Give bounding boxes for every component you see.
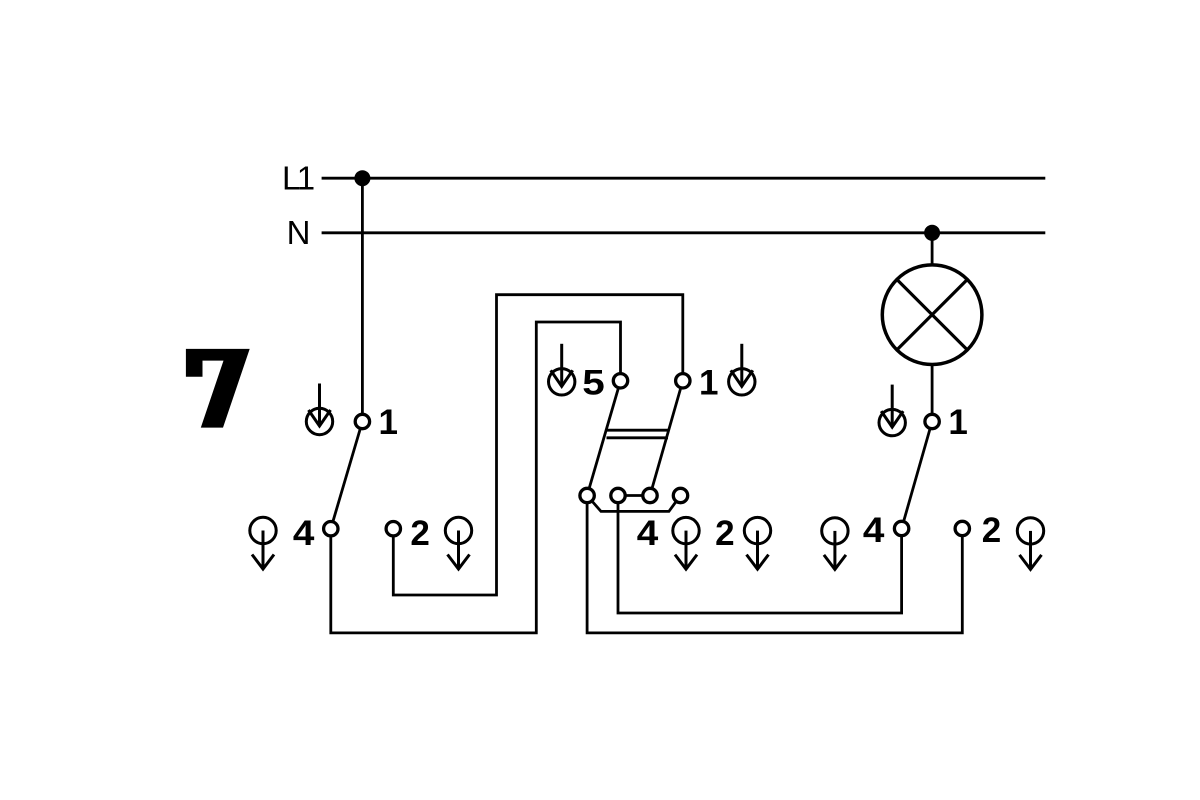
arrow-out symbol S1 left <box>250 517 276 569</box>
terminal X1 bottom c <box>643 488 657 502</box>
junction dot L1 <box>354 170 370 186</box>
arrow-in symbol S2 feed <box>879 385 905 436</box>
arrow-in symbol X1 left <box>549 344 575 395</box>
svg-text:2: 2 <box>715 514 734 553</box>
arrow-in symbol X1 right <box>729 344 755 395</box>
junction dot N <box>924 225 940 241</box>
terminal X1 bottom d <box>673 488 687 502</box>
terminal X1-5 <box>613 374 627 388</box>
terminal X1 bottom a <box>580 488 594 502</box>
svg-text:5: 5 <box>582 364 605 403</box>
step number 7 <box>186 349 250 428</box>
wire L1 bus <box>322 177 1046 180</box>
switch S1 blade <box>331 422 363 529</box>
terminal X1-1 <box>676 374 690 388</box>
intermediate switch blade right <box>650 381 683 496</box>
arrow-out symbol S2 right <box>1017 518 1043 570</box>
terminal S2-2 <box>955 521 969 535</box>
terminal S2-1 <box>925 414 939 428</box>
terminal S1-2 <box>386 522 400 536</box>
switch S2 blade <box>902 422 933 529</box>
wire S1 terminal 2 to intermediate terminal 1 (outer loop) <box>393 295 683 595</box>
wire intermediate bottom terminal to S2 terminal 4 (upper bus) <box>618 496 902 614</box>
wire L1 feed down to switch S1 terminal 1 <box>361 178 364 421</box>
wire N bus <box>322 231 1046 234</box>
wire S1 terminal 4 to intermediate terminal 5 (inner loop) <box>331 322 621 633</box>
intermediate switch blade left <box>587 381 620 496</box>
arrow-in symbol S1 feed <box>306 384 332 435</box>
wire lamp to S2 terminal 1 <box>931 365 934 422</box>
svg-text:2: 2 <box>982 511 1001 550</box>
svg-text:N: N <box>287 214 309 251</box>
terminal S1-4 <box>324 522 338 536</box>
svg-text:4: 4 <box>637 514 659 553</box>
svg-text:1: 1 <box>378 403 397 442</box>
svg-text:4: 4 <box>293 514 315 553</box>
arrow-out symbol X1 left <box>673 517 699 569</box>
intermediate bottom link terminals 2-3 <box>618 494 650 497</box>
lamp E1 <box>882 265 982 365</box>
terminal X1 bottom b <box>611 488 625 502</box>
terminal S1-1 <box>355 414 369 428</box>
intermediate switch coupling bar <box>607 430 669 438</box>
terminal S2-4 <box>894 521 908 535</box>
svg-text:4: 4 <box>863 511 885 550</box>
svg-text:L1: L1 <box>282 159 314 196</box>
wire N feed down to lamp <box>931 233 934 265</box>
arrow-out symbol S1 right <box>445 517 471 569</box>
svg-text:1: 1 <box>948 403 967 442</box>
svg-text:2: 2 <box>410 514 429 553</box>
intermediate bottom strap terminals 1-4 <box>587 496 680 512</box>
arrow-out symbol X1 right <box>744 517 770 569</box>
wire intermediate bottom terminal to S2 terminal 2 (lower bus) <box>587 496 962 633</box>
svg-text:1: 1 <box>699 364 718 403</box>
arrow-out symbol S2 left <box>822 518 848 570</box>
